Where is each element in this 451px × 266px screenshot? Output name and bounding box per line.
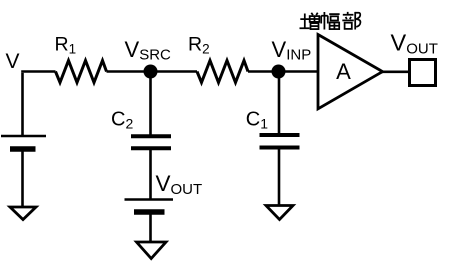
node VSRC junction dot — [144, 65, 158, 79]
svg-text:R1: R1 — [55, 34, 77, 57]
ground left — [10, 207, 36, 220]
kanji 部 — [342, 12, 360, 30]
wire battery to left ground — [21, 152, 24, 207]
wire C1 bottom plate down to right ground — [278, 149, 281, 205]
battery V input source — [1, 135, 46, 138]
svg-text:VOUT: VOUT — [391, 30, 438, 58]
ground right — [266, 206, 293, 220]
resistor R2 — [197, 61, 248, 83]
svg-text:A: A — [336, 59, 351, 84]
wire from R2 to amplifier input through node VINP — [248, 70, 318, 73]
capacitor C2 — [131, 136, 171, 148]
svg-text:C1: C1 — [246, 109, 268, 132]
wire from R1 to R2 through node VSRC — [107, 70, 198, 73]
wire amplifier output to VOUT terminal box — [381, 71, 410, 74]
wire VSRC node down to C2 — [149, 72, 152, 135]
wire C2 bottom plate down to VOUT battery — [149, 150, 152, 199]
kanji 幅 — [321, 12, 339, 30]
kanji 増 — [300, 13, 320, 29]
ground middle — [137, 242, 167, 259]
svg-text:VINP: VINP — [272, 37, 312, 64]
svg-text:R2: R2 — [188, 34, 210, 57]
svg-text:VSRC: VSRC — [125, 37, 172, 64]
resistor R1 — [56, 61, 107, 83]
wire battery to middle ground — [149, 215, 152, 242]
op-amp amplifier A triangle — [318, 35, 383, 109]
wire VINP node down to C1 — [278, 72, 281, 134]
node VINP junction dot — [272, 65, 286, 79]
terminal VOUT output box — [410, 60, 436, 86]
svg-text:V: V — [6, 50, 20, 73]
battery VOUT reference source — [125, 198, 174, 201]
capacitor C1 — [260, 135, 300, 148]
svg-text:VOUT: VOUT — [156, 171, 203, 198]
wire left vertical from V corner down to battery — [21, 73, 24, 135]
wire top-left horizontal from corner to R1 — [21, 70, 55, 73]
svg-text:C2: C2 — [111, 109, 133, 132]
label 増幅部 amplifier section (drawn kanji) — [300, 12, 361, 30]
